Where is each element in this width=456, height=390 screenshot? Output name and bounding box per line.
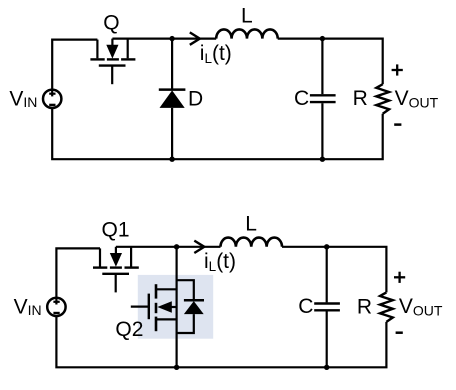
inductor L (bottom circuit) xyxy=(221,238,283,247)
source V_IN (top circuit) xyxy=(43,90,61,108)
transistor Q1 xyxy=(93,247,139,293)
wire left branch lower + bottom rail + right branch lower xyxy=(52,108,383,159)
node capacitor bottom (bottom circuit) xyxy=(324,365,329,370)
capacitor C (top circuit) xyxy=(310,95,336,102)
svg-text:C: C xyxy=(294,87,309,110)
capacitor C (bottom circuit) xyxy=(314,304,340,311)
wire capacitor branch lower xyxy=(321,103,323,159)
node capacitor top (bottom circuit) xyxy=(324,244,329,249)
wire left branch lower + bottom rail + right branch lower (bottom circuit) xyxy=(56,316,386,367)
label - (top circuit) xyxy=(394,123,401,126)
wire capacitor branch lower (bottom circuit) xyxy=(326,311,328,367)
svg-text:Q1: Q1 xyxy=(102,219,130,242)
node Q2 bottom (bottom circuit) xyxy=(174,365,179,370)
wire capacitor branch upper (bottom circuit) xyxy=(326,247,328,303)
svg-text:R: R xyxy=(357,295,372,318)
wire top rail (inductor to right corner) + right branch upper (bottom circuit) xyxy=(282,247,386,293)
label + (top circuit) xyxy=(392,64,403,75)
diode D xyxy=(159,90,186,108)
svg-text:R: R xyxy=(353,87,368,110)
wire capacitor branch upper xyxy=(321,39,323,95)
wire diode branch upper xyxy=(171,39,173,89)
node A (diode top, top circuit) xyxy=(169,36,174,41)
body diode of Q2 xyxy=(177,280,204,333)
resistor R (top circuit) xyxy=(376,84,389,114)
inductor L (top circuit) xyxy=(216,29,278,38)
svg-text:Q: Q xyxy=(103,11,119,34)
node A (Q2 top, bottom circuit) xyxy=(174,244,179,249)
svg-text:C: C xyxy=(298,295,313,318)
wire Q2 main vertical branch xyxy=(176,247,178,367)
wire top rail (Q1 to inductor, bottom circuit) xyxy=(116,246,221,248)
node capacitor bottom (top circuit) xyxy=(320,157,325,162)
wire top-left rail and left branch upper xyxy=(52,40,97,90)
label + (bottom circuit) xyxy=(394,272,405,283)
resistor R (bottom circuit) xyxy=(380,292,393,322)
node diode bottom (top circuit) xyxy=(169,157,174,162)
wire top-left rail and left branch upper (bottom circuit) xyxy=(56,248,100,297)
current arrow i_L (top circuit) xyxy=(190,32,200,44)
wire diode branch lower xyxy=(171,108,173,159)
label - (bottom circuit) xyxy=(396,331,403,334)
svg-text:D: D xyxy=(188,88,203,111)
source V_IN (bottom circuit) xyxy=(47,298,65,316)
transistor Q2 xyxy=(131,284,177,331)
svg-text:L: L xyxy=(241,4,253,27)
svg-text:L: L xyxy=(245,213,257,236)
highlight box around Q2 xyxy=(138,275,213,339)
node capacitor top (top circuit) xyxy=(320,36,325,41)
wire top rail (MOSFET to inductor) xyxy=(112,37,216,39)
svg-text:Q2: Q2 xyxy=(115,318,143,341)
wire top rail (inductor to right corner) + right branch upper xyxy=(278,39,383,85)
current arrow i_L (bottom circuit) xyxy=(194,241,204,253)
transistor Q xyxy=(90,39,135,85)
